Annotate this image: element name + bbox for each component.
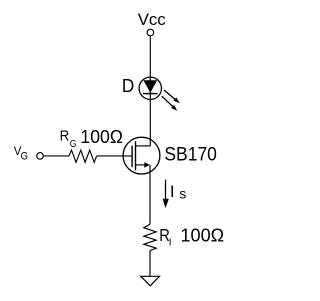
svg-text:100Ω: 100Ω bbox=[181, 224, 225, 245]
svg-text:D: D bbox=[122, 75, 134, 96]
svg-text:I: I bbox=[170, 182, 175, 201]
svg-text:s: s bbox=[179, 185, 186, 201]
svg-text:R: R bbox=[60, 129, 70, 145]
svg-text:G: G bbox=[70, 139, 77, 150]
svg-text:100Ω: 100Ω bbox=[80, 126, 123, 147]
svg-text:Vcc: Vcc bbox=[138, 10, 166, 29]
svg-text:I: I bbox=[169, 238, 172, 249]
svg-text:G: G bbox=[21, 151, 28, 163]
svg-text:SB170: SB170 bbox=[164, 144, 217, 165]
